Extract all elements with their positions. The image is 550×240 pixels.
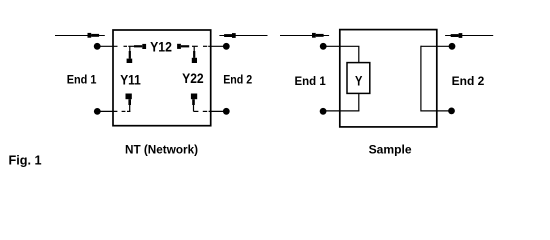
svg-text:Y12: Y12 <box>150 39 172 54</box>
svg-text:Fig. 1: Fig. 1 <box>9 153 42 168</box>
svg-text:Sample: Sample <box>369 142 412 156</box>
svg-text:End 1: End 1 <box>295 74 327 88</box>
svg-text:NT (Network): NT (Network) <box>125 142 198 156</box>
svg-text:Y22: Y22 <box>182 71 204 86</box>
svg-text:End 2: End 2 <box>223 73 252 87</box>
svg-text:End 2: End 2 <box>452 74 485 88</box>
svg-text:End 1: End 1 <box>67 73 97 87</box>
svg-text:Y: Y <box>355 73 362 88</box>
svg-text:Y11: Y11 <box>120 72 141 87</box>
